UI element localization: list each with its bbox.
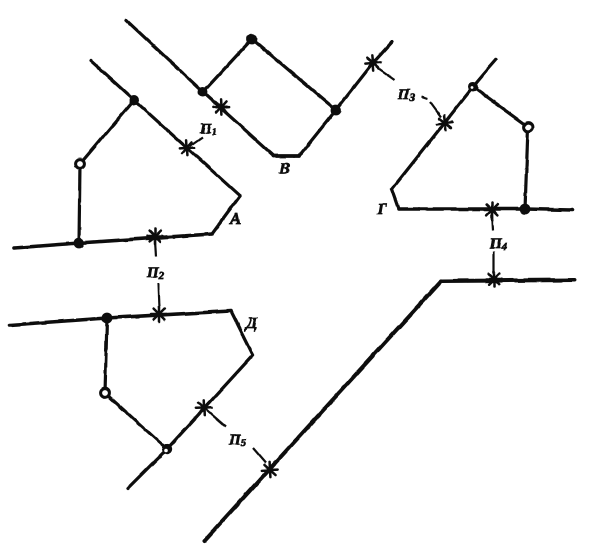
node B3 filled bbox=[331, 105, 342, 116]
crossing mark P3 on G bbox=[434, 112, 455, 133]
svg-text:П4: П4 bbox=[489, 236, 508, 253]
node D1 filled bbox=[102, 313, 113, 324]
wire B right tail bbox=[336, 42, 392, 110]
crossing mark P5 on track bbox=[259, 459, 280, 480]
svg-text:П5: П5 bbox=[228, 432, 247, 449]
park G outline bbox=[392, 60, 572, 210]
wire long horizontal track bbox=[441, 280, 575, 281]
wire A bottom edge bbox=[14, 234, 212, 248]
wire B top tail bbox=[126, 20, 203, 92]
wire long diagonal track bbox=[204, 281, 441, 541]
crossing mark P2 on A bbox=[148, 229, 163, 244]
wire P3 connector left bbox=[378, 68, 395, 80]
crossing mark P3 on B bbox=[362, 52, 383, 73]
wire D bottom tail bbox=[128, 449, 167, 488]
svg-text:А: А bbox=[229, 209, 241, 228]
park D outline bbox=[10, 311, 253, 488]
node B2 filled bbox=[247, 34, 258, 45]
wire G left corner bbox=[392, 189, 399, 209]
park B outline bbox=[126, 20, 392, 156]
wire D left edge bbox=[105, 318, 107, 393]
node D2 open bbox=[101, 389, 110, 398]
wire P3 connector right bbox=[421, 97, 441, 117]
wire P5 connector top bbox=[210, 413, 226, 427]
svg-text:В: В bbox=[278, 159, 290, 178]
wire P4 connector top bbox=[492, 214, 493, 231]
wire B right edge bbox=[299, 110, 336, 156]
node G3 filled bbox=[520, 204, 531, 215]
wire A left edge bbox=[79, 164, 80, 243]
wire P2 connector top bbox=[155, 240, 156, 257]
wire D lower-left edge bbox=[105, 393, 167, 449]
wire A diagonal edge bbox=[134, 100, 240, 196]
wire B top-left edge bbox=[203, 39, 252, 92]
wire P1 connector bbox=[190, 137, 203, 146]
node D3 filled bbox=[162, 444, 172, 454]
node A3 filled bbox=[74, 238, 85, 249]
wire A upper-left edge bbox=[80, 100, 134, 164]
wire D lower-right edge bbox=[167, 355, 253, 449]
node B1 filled bbox=[198, 87, 208, 97]
park A outline bbox=[14, 61, 240, 248]
svg-text:Д: Д bbox=[244, 315, 258, 332]
wire P2 connector bottom bbox=[158, 283, 159, 308]
node A2 open bbox=[76, 160, 85, 169]
wire G top tail bbox=[473, 60, 496, 87]
wire P4 connector bottom bbox=[493, 251, 495, 274]
wire G bottom edge bbox=[399, 209, 572, 210]
crossing mark P5 on D bbox=[193, 397, 214, 418]
wire D right corner edge bbox=[231, 311, 253, 355]
node A1 filled bbox=[129, 95, 139, 105]
svg-text:П1: П1 bbox=[199, 121, 217, 138]
wire B top-right edge bbox=[252, 39, 336, 110]
wire D top edge bbox=[10, 311, 231, 325]
wire P5 connector bottom bbox=[253, 448, 266, 463]
node G2 open bbox=[524, 123, 533, 132]
wire B left-bottom edge bbox=[203, 92, 274, 156]
crossing mark P4 on G bbox=[485, 203, 500, 218]
wire G top-right edge bbox=[473, 87, 528, 127]
wire G right edge bbox=[525, 127, 528, 209]
crossing mark P1 on B bbox=[210, 96, 231, 117]
wire A top tail bbox=[91, 61, 134, 100]
node G1 open bbox=[468, 82, 478, 92]
crossing mark P2 on D bbox=[152, 307, 167, 322]
svg-text:П2: П2 bbox=[146, 265, 165, 282]
wire A right short edge bbox=[212, 196, 240, 234]
wire G left edge bbox=[392, 87, 473, 189]
svg-text:Г: Г bbox=[376, 201, 387, 218]
wire B flat bottom bbox=[274, 154, 299, 158]
crossing mark P1 on A bbox=[176, 137, 197, 158]
crossing mark P4 on track bbox=[487, 272, 502, 287]
svg-text:П3: П3 bbox=[397, 87, 416, 104]
